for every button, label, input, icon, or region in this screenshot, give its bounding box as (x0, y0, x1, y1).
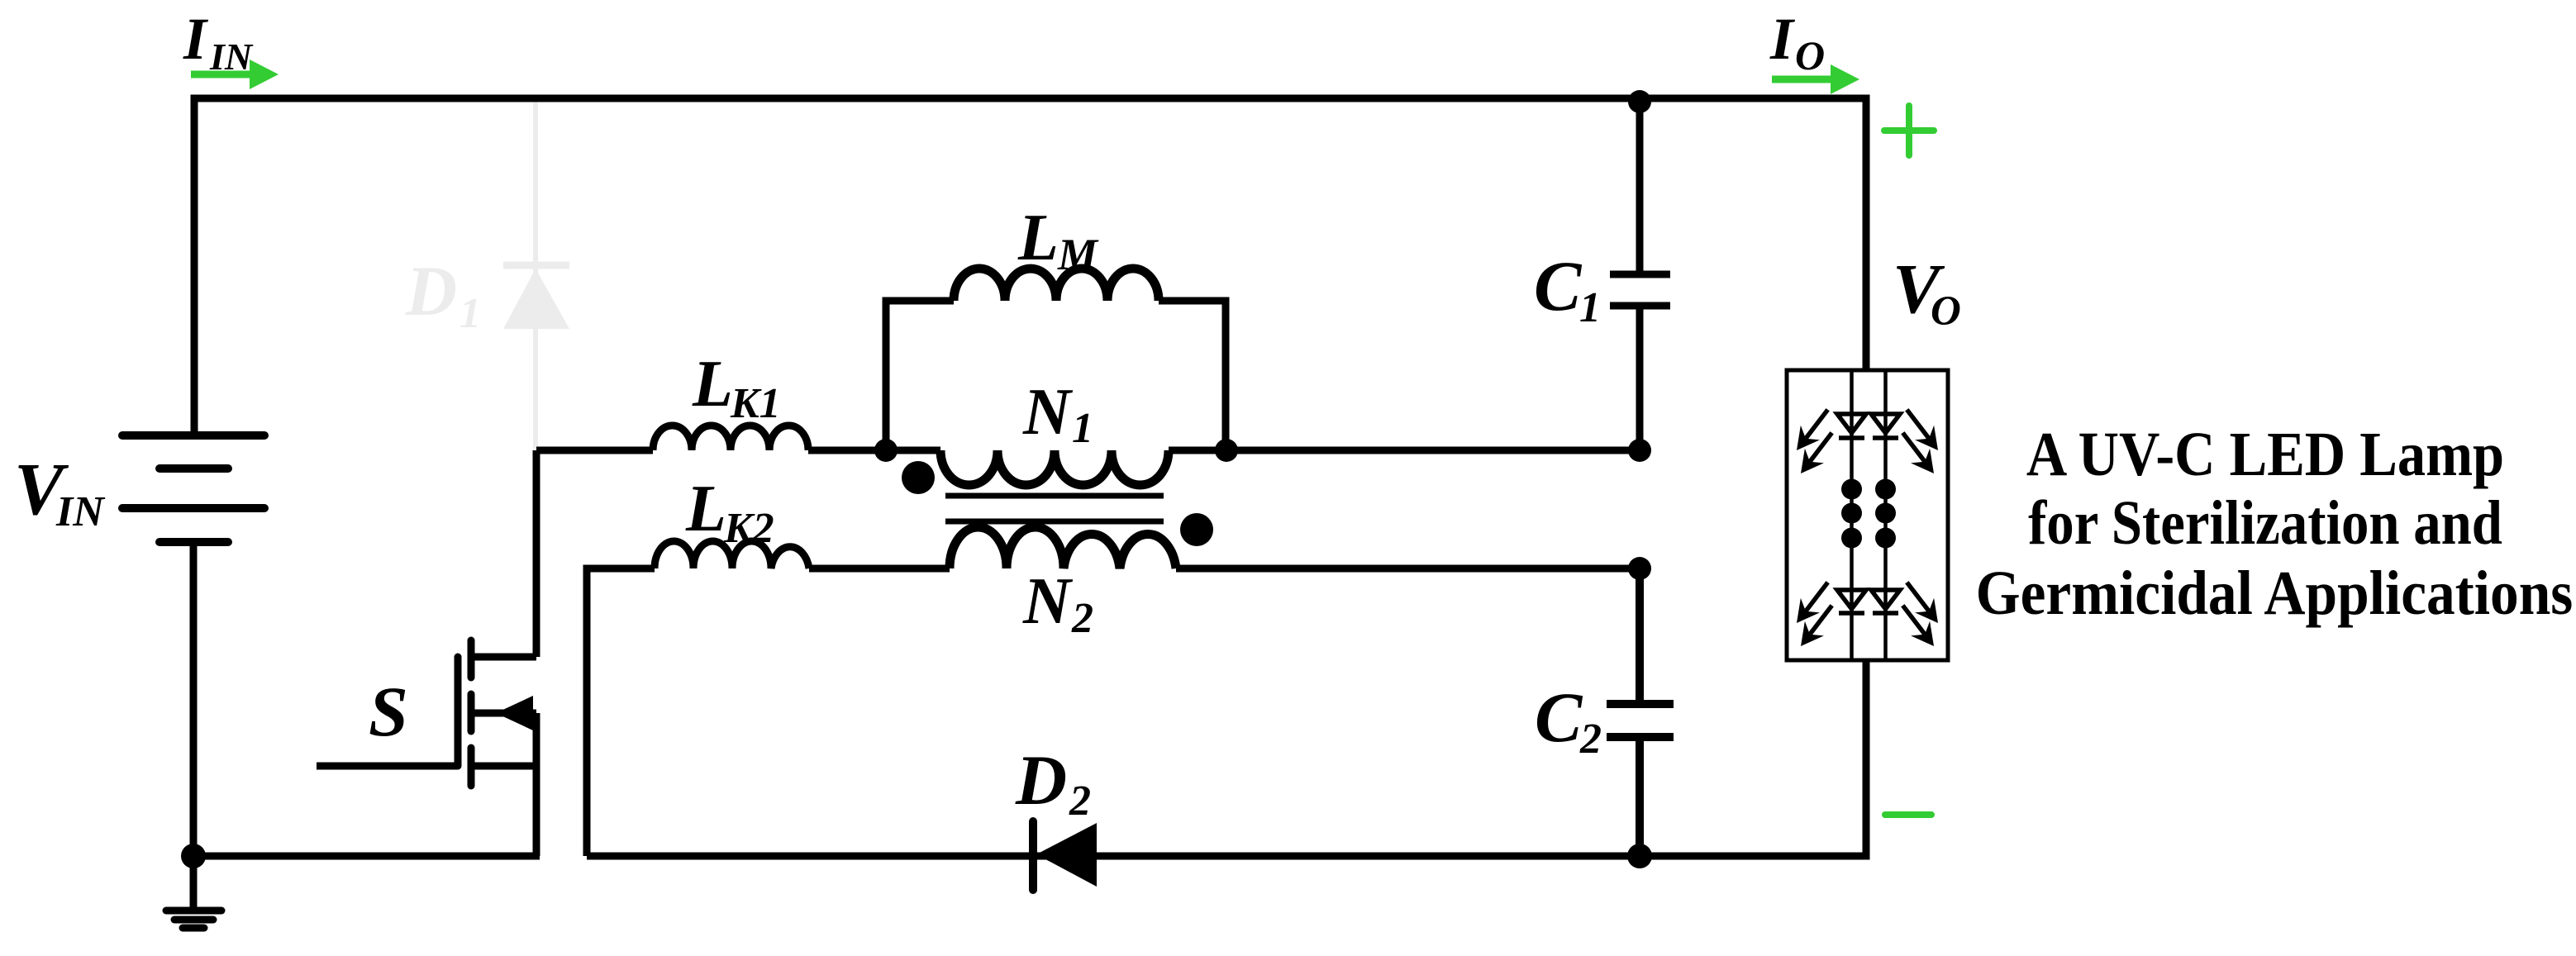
phase dot N2 (1180, 513, 1213, 546)
LED lamp box (1787, 370, 1948, 660)
svg-text:L: L (685, 473, 726, 545)
svg-text:L: L (692, 348, 733, 421)
svg-text:N: N (1022, 565, 1074, 638)
svg-text:for Sterilization and: for Sterilization and (2028, 488, 2502, 558)
wire lower rail (LK2 / N2 line) (587, 568, 1640, 856)
current arrow IIN (green) (191, 59, 279, 89)
inductor LM (886, 301, 1226, 450)
svg-text:1: 1 (459, 290, 481, 337)
node top rail / C1 (1628, 90, 1651, 113)
svg-text:N: N (1022, 376, 1074, 449)
inductor LK1 (653, 426, 808, 450)
svg-text:O: O (1795, 32, 1825, 78)
current arrow IO (green) (1772, 64, 1859, 94)
node LM right (1215, 439, 1238, 462)
svg-text:1: 1 (1072, 405, 1093, 452)
capacitor C1 (1610, 98, 1670, 450)
LED dots column right (1875, 479, 1896, 549)
transistor S (MOSFET) (317, 450, 536, 856)
LED D-bottom-left (1837, 590, 1866, 613)
svg-text:D: D (1015, 740, 1067, 820)
svg-text:I: I (1769, 6, 1796, 72)
diode D1 (faint, unused) (503, 102, 569, 449)
node N2 rail / C2 (1628, 557, 1651, 580)
ground (166, 911, 221, 928)
LED string wire left (1850, 370, 1854, 660)
wire upper rail (LK1 / N1 line) (536, 447, 1640, 454)
diode D2 (1029, 821, 1037, 890)
svg-text:A UV-C LED Lamp: A UV-C LED Lamp (2026, 420, 2504, 489)
LED D-bottom-right (1871, 590, 1900, 613)
svg-text:C: C (1534, 246, 1583, 326)
winding N2 (950, 527, 1176, 568)
svg-text:2: 2 (1579, 716, 1602, 763)
LED D-top-left (1837, 414, 1866, 438)
node battery/ground junction (181, 844, 206, 868)
capacitor C2 (1607, 568, 1674, 856)
node LM left (874, 439, 898, 462)
LED D-top-right (1871, 414, 1900, 438)
svg-text:O: O (1931, 288, 1961, 335)
wire battery bottom to ground junction (190, 542, 198, 909)
phase dot N1 (902, 461, 935, 494)
node N1 rail / C1 (1628, 439, 1651, 462)
plus sign (green) (1884, 106, 1934, 155)
inductor LK2 (655, 541, 809, 568)
svg-text:2: 2 (1071, 595, 1093, 642)
svg-text:K2: K2 (723, 505, 774, 552)
transformer core (945, 496, 1164, 521)
winding N1 (940, 450, 1169, 485)
svg-text:L: L (1017, 202, 1059, 274)
wire top rail with left and right verticals (194, 98, 1866, 435)
svg-text:1: 1 (1579, 284, 1601, 331)
svg-text:C: C (1535, 678, 1583, 757)
minus sign (green) (1885, 811, 1931, 818)
label D1 (faint) (405, 251, 481, 337)
svg-text:2: 2 (1069, 778, 1091, 825)
svg-text:Germicidal Applications: Germicidal Applications (1976, 558, 2574, 628)
LED dots column left (1841, 479, 1862, 549)
svg-text:S: S (369, 672, 408, 751)
LED string wire right (1883, 370, 1888, 660)
svg-text:D: D (405, 251, 457, 331)
svg-text:I: I (183, 6, 209, 72)
wire bottom left (ground rail to switch source) (193, 853, 540, 860)
caption text (2026, 420, 2504, 489)
wire bottom (D2 branch to output return) (587, 660, 1866, 856)
svg-text:K1: K1 (730, 380, 781, 427)
battery VIN (122, 435, 264, 542)
node C2 / output return (1627, 844, 1652, 868)
svg-text:IN: IN (55, 488, 106, 535)
svg-text:M: M (1057, 230, 1099, 279)
